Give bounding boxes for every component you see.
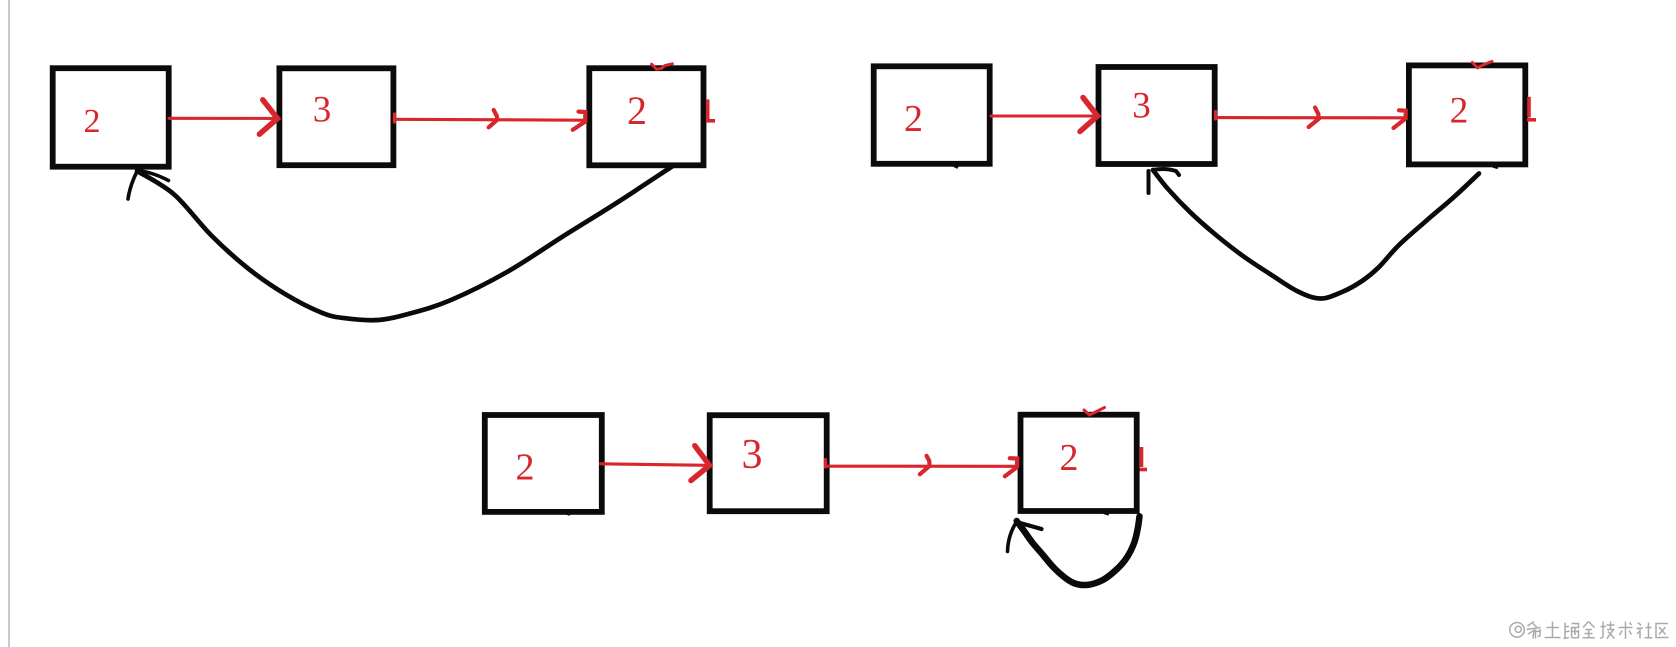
watermark char jue bbox=[1564, 623, 1579, 639]
svg-text:2: 2 bbox=[627, 88, 647, 133]
watermark @juejin community bbox=[1510, 622, 1669, 640]
svg-text:2: 2 bbox=[516, 447, 535, 489]
wire red arrow M1 to M2 bbox=[991, 98, 1098, 132]
node box M3 (top-right list, value 2) bbox=[1409, 65, 1525, 164]
watermark char xi bbox=[1527, 622, 1542, 639]
wire red arrow M2 to M3 bbox=[1216, 108, 1406, 129]
node box B1 (bottom list, value 2) bbox=[485, 415, 602, 512]
wire red arrow B1 to B2 bbox=[601, 446, 710, 481]
node box L2 (top-left list, value 3) bbox=[279, 68, 393, 165]
black cycle arrow from L3 back to L1 bbox=[137, 167, 672, 321]
red null mark right of node M3 bbox=[1527, 97, 1536, 120]
watermark char jin bbox=[1583, 622, 1596, 638]
svg-text:2: 2 bbox=[84, 103, 101, 140]
arrowhead of cycle arrow at L1 bbox=[128, 171, 169, 200]
left gray guide line bbox=[8, 0, 10, 647]
red tick mark on top of node M3 bbox=[1472, 61, 1492, 67]
svg-text:3: 3 bbox=[313, 90, 332, 131]
stray nub under node B3 bbox=[1104, 513, 1109, 515]
red tick mark on top of node B3 bbox=[1084, 408, 1105, 416]
node box L3 (top-left list, value 2) bbox=[589, 68, 703, 165]
stray nub under node M1 bbox=[954, 166, 958, 168]
red null mark right of node L3 bbox=[706, 99, 715, 120]
svg-text:2: 2 bbox=[1060, 437, 1079, 479]
node box B3 (bottom list, value 2) bbox=[1021, 415, 1137, 511]
watermark at-sign bbox=[1510, 623, 1525, 638]
watermark char qu bbox=[1656, 624, 1669, 638]
arrowhead of cycle arrow at M2 bbox=[1149, 169, 1180, 193]
black self-loop arrow on node B3 bbox=[1017, 516, 1140, 585]
wire red arrow B2 to B3 bbox=[826, 456, 1018, 477]
node box B2 (bottom list, value 3) bbox=[710, 415, 827, 511]
stray nub under node M3 bbox=[1493, 166, 1498, 168]
svg-text:3: 3 bbox=[742, 432, 763, 478]
black cycle arrow from M3 back to M2 bbox=[1153, 170, 1479, 299]
wire red arrow L1 to L2 bbox=[169, 100, 278, 134]
red tick mark on top of node L3 bbox=[652, 64, 673, 70]
svg-text:2: 2 bbox=[1450, 90, 1469, 131]
watermark char tu bbox=[1545, 622, 1561, 638]
red null mark right of node B3 bbox=[1140, 447, 1148, 470]
svg-text:3: 3 bbox=[1132, 86, 1151, 127]
watermark char ji bbox=[1600, 622, 1615, 639]
node box M2 (top-right list, value 3) bbox=[1099, 67, 1215, 164]
node box M1 (top-right list, value 2) bbox=[874, 66, 990, 164]
wire red arrow L2 to L3 bbox=[395, 110, 586, 130]
watermark char she bbox=[1637, 623, 1653, 639]
node box L1 (top-left list, value 2) bbox=[53, 68, 169, 167]
stray nub under node B1 bbox=[566, 513, 570, 515]
svg-text:2: 2 bbox=[904, 98, 923, 140]
watermark char shu bbox=[1619, 622, 1633, 640]
arrowhead of self-loop at B3 bbox=[1008, 522, 1042, 552]
